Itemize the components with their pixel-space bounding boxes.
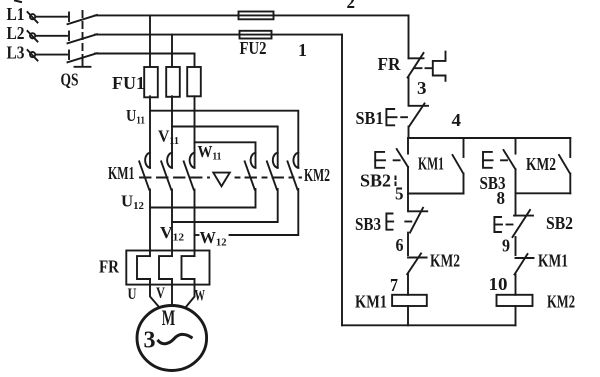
KM2 aux label (526, 154, 556, 174)
node U12 label (121, 192, 144, 213)
scan artifact top edge (15, 1, 21, 3)
KM2 NC label (430, 251, 460, 271)
svg-text:6: 6 (396, 235, 404, 255)
svg-text:V: V (156, 285, 165, 302)
SB1 label (356, 108, 384, 128)
svg-text:L2: L2 (7, 23, 25, 43)
contactor KM2 main contact 1 (245, 153, 256, 190)
fuse FU1 phase 2 (166, 67, 180, 97)
svg-text:W11: W11 (198, 142, 222, 163)
wire coil KM1 to bottom rail (407, 306, 409, 325)
wire KM1 contact1 down (149, 190, 151, 257)
wire KM1 contact2 down (171, 190, 173, 257)
wire L2 after QS to corner (95, 34, 342, 36)
wire W11 to KM2 left contact (195, 142, 256, 168)
SB3 NO actuator (483, 152, 509, 168)
node V11 label (158, 127, 179, 148)
wire L1 to QS (36, 16, 68, 18)
control bottom rail (342, 324, 516, 326)
wire node6 (407, 233, 409, 256)
svg-text:SB1: SB1 (356, 108, 384, 128)
motor M label (162, 305, 176, 330)
svg-text:FR: FR (378, 54, 402, 74)
node L2 label (7, 23, 25, 43)
wire heater3 to motor (186, 279, 195, 308)
svg-text:KM2: KM2 (547, 292, 575, 312)
node L3 label (7, 42, 25, 62)
wire 1 vertical left rail (341, 35, 343, 326)
svg-text:KM1: KM1 (538, 251, 568, 271)
wire phase1 fuse to contact (149, 96, 151, 168)
KM1 label main (108, 163, 135, 183)
terminal L1 (28, 12, 38, 23)
svg-text:FU2: FU2 (240, 38, 267, 58)
contactor KM1 aux NO (453, 138, 464, 194)
svg-text:KM1: KM1 (355, 292, 387, 312)
wire tap L3 down to fuse (194, 54, 196, 67)
node 8 label (497, 188, 506, 208)
fuse FU1 phase 3 (187, 67, 201, 96)
FR heater phase 3 (182, 256, 195, 279)
fuse FU2 lower on wire 1 (240, 31, 272, 39)
pushbutton SB3 NC interlock (409, 208, 427, 233)
svg-text:10: 10 (489, 274, 508, 294)
node 4 label (452, 110, 462, 130)
coil KM2 label (547, 292, 575, 312)
svg-text:7: 7 (390, 275, 398, 295)
FU1 label (112, 73, 145, 93)
SB2 label (360, 171, 391, 191)
coil KM2 (497, 295, 533, 306)
wire W12 cross link (195, 189, 299, 235)
wire L1 after QS to corner (95, 14, 409, 16)
FU2 label (240, 38, 267, 58)
pushbutton SB2 NC interlock (513, 210, 534, 237)
wire heater2 to motor (171, 279, 173, 306)
node 9 label (502, 236, 510, 256)
svg-text:QS: QS (61, 70, 79, 90)
KM1 aux label (418, 154, 444, 174)
wire L2 to QS (36, 35, 68, 37)
contactor KM2 main contact 2 (267, 153, 278, 190)
svg-text:KM1: KM1 (108, 163, 135, 183)
svg-text:U: U (128, 286, 137, 303)
contactor KM1 main contact 2 (161, 153, 172, 190)
fuse FU2 upper on wire 2 (239, 12, 274, 20)
wire node9 (515, 237, 517, 255)
SB2 NC label (546, 213, 573, 233)
node 2 label (347, 0, 356, 12)
FR NC contact control (408, 53, 424, 78)
coil KM1 label (355, 292, 387, 312)
node 6 label (396, 235, 404, 255)
motor terminal U label (128, 286, 137, 303)
node W11 label (198, 142, 222, 163)
svg-text:4: 4 (452, 110, 462, 130)
wire 2 vertical into control (408, 15, 410, 58)
node 10 label (489, 274, 508, 294)
svg-text:8: 8 (497, 188, 506, 208)
wire U11 to KM2 right contact (150, 111, 298, 168)
svg-text:FR: FR (99, 257, 120, 277)
FR heater phase 1 (137, 256, 150, 279)
node L1 label (7, 4, 25, 24)
wire KM1 contact3 down (194, 190, 196, 257)
KM2 label main (304, 165, 330, 185)
QS label (61, 70, 79, 90)
svg-text:W: W (195, 288, 206, 305)
svg-text:KM2: KM2 (430, 251, 460, 271)
wire node7 (407, 274, 409, 295)
wire U12 cross link (150, 189, 256, 208)
contactor KM2 NC interlock (407, 254, 426, 275)
svg-text:2: 2 (347, 0, 356, 12)
motor M circle (137, 306, 207, 371)
wire SB1 to node4 (408, 127, 410, 139)
wire phase3 fuse to contact (194, 96, 196, 168)
FR actuator hook (433, 52, 446, 81)
motor 3 label (144, 328, 156, 354)
motor ac wave symbol (159, 334, 192, 343)
node 3 label (417, 78, 427, 98)
wire coil KM2 to bottom rail (515, 306, 517, 325)
svg-text:W12: W12 (200, 228, 227, 249)
contactor KM1 main contact 3 (184, 153, 195, 190)
wire heater1 to motor (150, 279, 160, 308)
switch QS pole 2 (68, 32, 98, 44)
svg-text:SB2: SB2 (546, 213, 573, 233)
QS mechanical link dashed (75, 11, 91, 67)
wire L3 after QS to tap (95, 53, 195, 55)
FR label control (378, 54, 402, 74)
FR heater phase 2 (159, 256, 172, 279)
SB1 actuator (386, 109, 407, 125)
wire FR to SB1 (408, 78, 410, 106)
terminal L3 (28, 50, 38, 61)
pushbutton SB3 NO (504, 138, 516, 216)
svg-text:FU1: FU1 (112, 73, 145, 93)
pushbutton SB1 NC (409, 104, 428, 127)
svg-text:M: M (162, 305, 176, 330)
svg-text:1: 1 (298, 40, 307, 60)
svg-text:5: 5 (395, 184, 404, 204)
thermal relay FR box (126, 251, 209, 285)
wire V11 to KM2 middle contact (172, 127, 278, 168)
switch QS pole 3 (68, 51, 98, 63)
contactor KM2 aux NO (559, 138, 570, 193)
pushbutton SB2 NO (397, 138, 408, 211)
svg-text:V11: V11 (158, 127, 179, 148)
node U11 label (126, 106, 145, 127)
svg-text:U12: U12 (121, 192, 144, 213)
wire L3 to QS (36, 54, 68, 56)
svg-text:9: 9 (502, 236, 510, 256)
svg-text:3: 3 (417, 78, 427, 98)
SB2 actuator (375, 152, 401, 168)
wire tap L1 down to fuse (149, 15, 151, 66)
wire node10 (515, 275, 517, 295)
svg-text:U11: U11 (126, 106, 145, 127)
mechanical interlock triangle (213, 173, 230, 187)
SB3 NC actuator (386, 214, 411, 230)
node W12 label (200, 228, 227, 249)
SB2 NC actuator (494, 217, 512, 232)
svg-text:KM1: KM1 (418, 154, 444, 174)
motor terminal V label (156, 285, 165, 302)
contactor KM1 NC interlock (515, 254, 534, 275)
SB3 NC label (355, 214, 381, 234)
svg-text:L1: L1 (7, 4, 25, 24)
motor terminal W label (195, 288, 206, 305)
node V12 label (160, 223, 185, 244)
svg-text:KM2: KM2 (304, 165, 330, 185)
mechanical interlock dashed line (140, 177, 301, 179)
svg-text:V12: V12 (160, 223, 185, 244)
svg-text:KM2: KM2 (526, 154, 556, 174)
svg-text:L3: L3 (7, 42, 25, 62)
node 5 label (395, 184, 404, 204)
wire V12 cross link (172, 189, 278, 222)
right parallel bottom rail (516, 192, 571, 194)
contactor KM1 main contact 1 (139, 153, 150, 190)
fuse FU1 phase 1 (144, 67, 158, 97)
svg-text:SB3: SB3 (355, 214, 381, 234)
coil KM1 (392, 295, 427, 306)
svg-text:SB2: SB2 (360, 171, 391, 191)
wire phase2 fuse to contact (171, 96, 173, 168)
KM1 NC label (538, 251, 568, 271)
artifact colon (395, 177, 397, 186)
FR label main (99, 257, 120, 277)
terminal L2 (28, 31, 38, 42)
FR actuator link dashes (415, 67, 433, 69)
node 7 label (390, 275, 398, 295)
svg-text:3: 3 (144, 328, 156, 354)
left parallel bottom rail (408, 193, 464, 195)
switch QS pole 1 (68, 13, 98, 25)
wire tap L2 down to fuse (171, 35, 173, 67)
contactor KM2 main contact 3 (288, 153, 299, 190)
node 4 rail (408, 137, 570, 139)
SB3 NO label (480, 173, 506, 193)
node 1 label (298, 40, 307, 60)
